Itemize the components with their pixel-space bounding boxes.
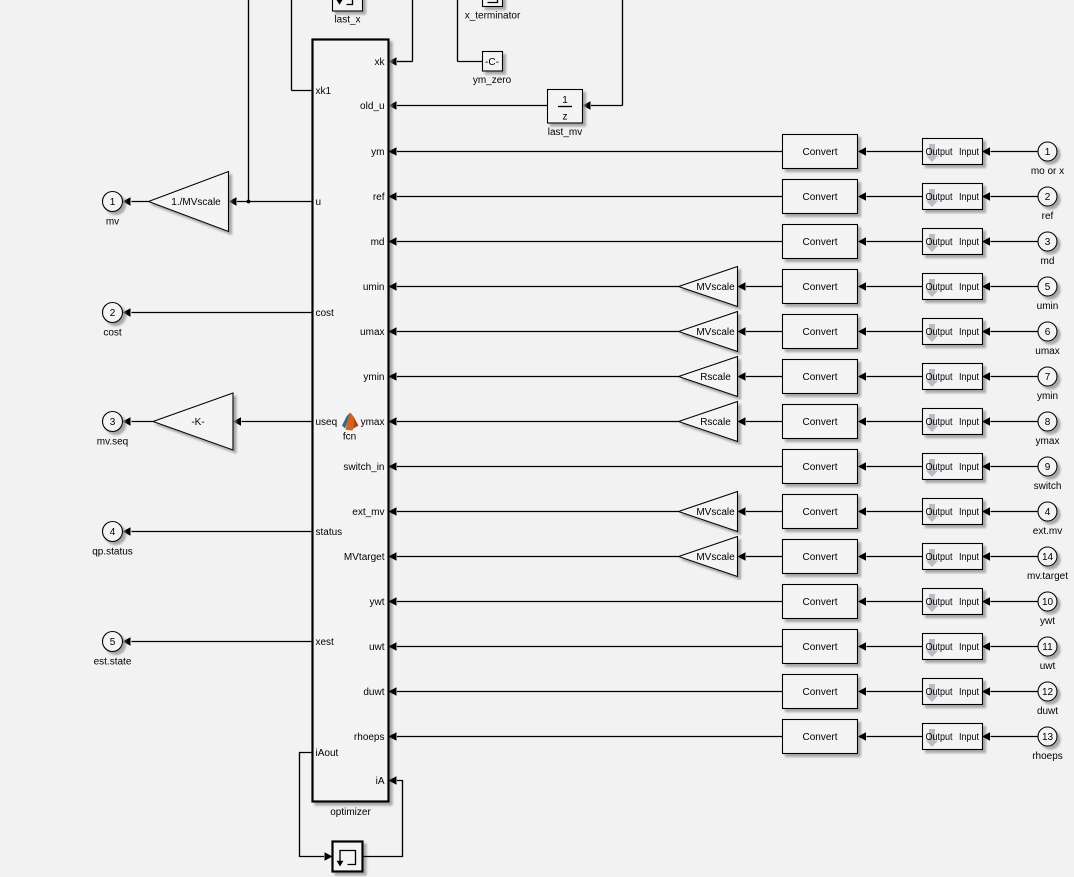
svg-text:ymin: ymin (1037, 391, 1058, 402)
svg-text:Convert: Convert (802, 552, 837, 563)
svg-text:Input: Input (959, 192, 979, 203)
svg-text:xk1: xk1 (316, 86, 332, 97)
svg-text:Output: Output (926, 237, 953, 248)
svg-text:Convert: Convert (802, 642, 837, 653)
svg-text:Convert: Convert (802, 462, 837, 473)
svg-text:est.state: est.state (94, 657, 132, 668)
svg-text:-C-: -C- (485, 57, 499, 68)
svg-text:ymax: ymax (361, 417, 385, 428)
svg-text:Convert: Convert (802, 282, 837, 293)
svg-text:MVscale: MVscale (696, 327, 735, 338)
svg-text:Output: Output (926, 462, 953, 473)
svg-text:12: 12 (1042, 687, 1054, 698)
svg-text:2: 2 (1045, 192, 1051, 203)
svg-text:2: 2 (110, 308, 116, 319)
svg-text:useq: useq (316, 417, 338, 428)
svg-text:Input: Input (959, 462, 979, 473)
svg-text:4: 4 (1045, 507, 1051, 518)
svg-text:Convert: Convert (802, 687, 837, 698)
svg-text:Input: Input (959, 597, 979, 608)
svg-text:Input: Input (959, 282, 979, 293)
svg-text:Input: Input (959, 417, 979, 428)
svg-text:ywt: ywt (1040, 616, 1055, 627)
svg-text:1: 1 (1045, 147, 1051, 158)
svg-text:status: status (316, 527, 343, 538)
svg-text:ref: ref (373, 192, 385, 203)
svg-text:old_u: old_u (360, 101, 384, 112)
svg-text:duwt: duwt (1037, 706, 1058, 717)
svg-text:MVscale: MVscale (696, 552, 735, 563)
svg-text:Input: Input (959, 372, 979, 383)
svg-text:md: md (1041, 256, 1055, 267)
svg-text:Input: Input (959, 687, 979, 698)
svg-text:mv.seq: mv.seq (97, 437, 129, 448)
svg-text:8: 8 (1045, 417, 1051, 428)
svg-text:u: u (316, 197, 322, 208)
svg-text:ext_mv: ext_mv (352, 507, 384, 518)
svg-text:cost: cost (316, 308, 335, 319)
svg-text:Convert: Convert (802, 372, 837, 383)
svg-text:umax: umax (1035, 346, 1059, 357)
svg-text:Output: Output (926, 147, 953, 158)
svg-text:Output: Output (926, 597, 953, 608)
svg-text:Convert: Convert (802, 417, 837, 428)
svg-text:iA: iA (376, 776, 385, 787)
svg-text:Convert: Convert (802, 147, 837, 158)
svg-text:1./MVscale: 1./MVscale (171, 197, 221, 208)
svg-text:Convert: Convert (802, 237, 837, 248)
svg-text:qp.status: qp.status (92, 547, 133, 558)
svg-text:Rscale: Rscale (700, 417, 731, 428)
svg-text:11: 11 (1042, 642, 1053, 653)
svg-text:Convert: Convert (802, 327, 837, 338)
svg-text:iAout: iAout (316, 748, 339, 759)
svg-text:xk: xk (375, 57, 386, 68)
svg-text:1: 1 (562, 95, 568, 106)
svg-text:x_terminator: x_terminator (465, 11, 521, 22)
svg-text:Convert: Convert (802, 192, 837, 203)
svg-text:xest: xest (316, 637, 335, 648)
svg-text:Convert: Convert (802, 507, 837, 518)
svg-text:ref: ref (1042, 211, 1054, 222)
svg-text:z: z (563, 112, 568, 123)
svg-text:switch_in: switch_in (343, 462, 384, 473)
svg-text:Rscale: Rscale (700, 372, 731, 383)
svg-text:optimizer: optimizer (330, 807, 371, 818)
svg-text:3: 3 (1045, 237, 1051, 248)
svg-text:5: 5 (110, 637, 116, 648)
svg-text:Input: Input (959, 147, 979, 158)
svg-text:Output: Output (926, 552, 953, 563)
svg-text:MVtarget: MVtarget (344, 552, 385, 563)
svg-text:rhoeps: rhoeps (1032, 751, 1063, 762)
svg-text:ym_zero: ym_zero (473, 75, 512, 86)
svg-text:Output: Output (926, 732, 953, 743)
svg-text:Output: Output (926, 327, 953, 338)
svg-text:md: md (371, 237, 385, 248)
svg-text:Input: Input (959, 642, 979, 653)
svg-text:ym: ym (371, 147, 384, 158)
svg-text:uwt: uwt (369, 642, 385, 653)
svg-text:Convert: Convert (802, 732, 837, 743)
svg-text:5: 5 (1045, 282, 1051, 293)
svg-text:ymax: ymax (1036, 436, 1060, 447)
svg-text:umax: umax (360, 327, 384, 338)
svg-text:switch: switch (1034, 481, 1062, 492)
svg-text:Input: Input (959, 237, 979, 248)
svg-text:ext.mv: ext.mv (1033, 526, 1062, 537)
svg-text:Output: Output (926, 687, 953, 698)
svg-text:mv.target: mv.target (1027, 571, 1068, 582)
svg-text:Output: Output (926, 507, 953, 518)
svg-text:rhoeps: rhoeps (354, 732, 385, 743)
svg-text:uwt: uwt (1040, 661, 1056, 672)
svg-text:Input: Input (959, 552, 979, 563)
svg-text:9: 9 (1045, 462, 1051, 473)
svg-text:last_mv: last_mv (548, 127, 582, 138)
svg-text:3: 3 (110, 417, 116, 428)
svg-text:mo or x: mo or x (1031, 166, 1064, 177)
svg-text:Output: Output (926, 642, 953, 653)
svg-text:MVscale: MVscale (696, 282, 735, 293)
svg-text:Convert: Convert (802, 597, 837, 608)
svg-text:13: 13 (1042, 732, 1054, 743)
svg-text:Output: Output (926, 372, 953, 383)
svg-text:1: 1 (110, 197, 116, 208)
svg-text:7: 7 (1045, 372, 1051, 383)
svg-text:MVscale: MVscale (696, 507, 735, 518)
svg-text:umin: umin (363, 282, 385, 293)
svg-text:4: 4 (110, 527, 116, 538)
svg-text:Input: Input (959, 507, 979, 518)
svg-text:umin: umin (1037, 301, 1059, 312)
svg-text:14: 14 (1042, 552, 1054, 563)
svg-text:Output: Output (926, 282, 953, 293)
svg-text:ywt: ywt (370, 597, 385, 608)
svg-text:Output: Output (926, 417, 953, 428)
svg-text:ymin: ymin (363, 372, 384, 383)
svg-text:Output: Output (926, 192, 953, 203)
svg-text:10: 10 (1042, 597, 1054, 608)
svg-text:Input: Input (959, 327, 979, 338)
svg-text:6: 6 (1045, 327, 1051, 338)
svg-text:last_x: last_x (334, 15, 360, 26)
svg-text:-K-: -K- (191, 417, 204, 428)
svg-text:Input: Input (959, 732, 979, 743)
svg-text:cost: cost (103, 328, 122, 339)
svg-text:duwt: duwt (363, 687, 384, 698)
svg-text:fcn: fcn (343, 432, 356, 443)
svg-text:mv: mv (106, 217, 119, 228)
